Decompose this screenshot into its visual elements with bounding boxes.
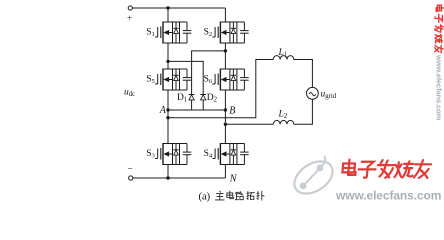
inductor L2	[273, 120, 294, 124]
wire S1 source to P1	[167, 43, 169, 61]
watermark logo (ellipse with dots)	[289, 155, 339, 201]
switch S1 (mosfet + body diode + capacitor)	[155, 22, 191, 44]
svg-text:www.elecfans.com: www.elecfans.com	[434, 54, 443, 121]
diode D1	[189, 95, 195, 111]
wire S6 drain	[224, 51, 226, 69]
wire A to B row	[168, 109, 225, 111]
wire S5 source to A	[167, 90, 169, 110]
switch S6 (mosfet + body diode + capacitor)	[212, 69, 248, 91]
wire S1 drain	[167, 8, 169, 22]
ac source u_grid	[307, 87, 319, 99]
wire S4 source	[224, 165, 226, 179]
watermark: vertical red site name (right edge)	[435, 5, 444, 53]
switch S5 (mosfet + body diode + capacitor)	[155, 69, 191, 91]
wire L2 to B tap	[225, 123, 273, 125]
svg-text:B: B	[229, 106, 235, 117]
diode D2	[200, 95, 206, 111]
wire S3 source	[167, 165, 169, 179]
wire A tap to riser	[168, 60, 273, 118]
node P1	[166, 60, 169, 63]
watermark: big red site name 电子发烧友	[342, 160, 432, 178]
switch S2 (mosfet + body diode + capacitor)	[212, 22, 248, 44]
positive input terminal	[128, 6, 132, 10]
wire L1 to grid source	[294, 60, 313, 88]
negative input terminal	[129, 176, 133, 180]
junction A output tap	[166, 116, 169, 119]
wire A to S3 drain	[167, 110, 169, 144]
wire S6 source to B	[224, 90, 226, 110]
svg-text:N: N	[229, 173, 238, 184]
wire bottom rail	[133, 177, 226, 179]
wire P2 to D1 cathode	[192, 51, 226, 95]
wire B to S4 drain	[224, 110, 226, 144]
node A	[166, 108, 169, 111]
wire grid source to L2	[294, 99, 313, 124]
switch S3 (mosfet + body diode + capacitor)	[155, 143, 191, 165]
node B	[224, 108, 227, 111]
svg-text:+: +	[127, 14, 132, 24]
svg-text:www.elecfans.com: www.elecfans.com	[335, 189, 441, 203]
caption text 主电路拓扑	[215, 191, 224, 200]
svg-text:−: −	[127, 165, 132, 175]
wire S2 drain	[224, 8, 226, 22]
junction top rail / S1 drain	[166, 6, 169, 9]
junction bottom rail / S3 source	[166, 176, 169, 179]
wire P1 to D2 cathode	[168, 61, 203, 94]
node P2	[224, 49, 227, 52]
switch S4 (mosfet + body diode + capacitor)	[212, 143, 248, 165]
svg-text:(a): (a)	[199, 192, 211, 203]
svg-text:A: A	[159, 105, 167, 116]
inductor L1	[273, 56, 294, 60]
wire top rail	[133, 7, 226, 9]
wire S5 drain	[167, 61, 169, 69]
wire S2 source to P2	[224, 43, 226, 51]
junction B output tap	[224, 123, 227, 126]
